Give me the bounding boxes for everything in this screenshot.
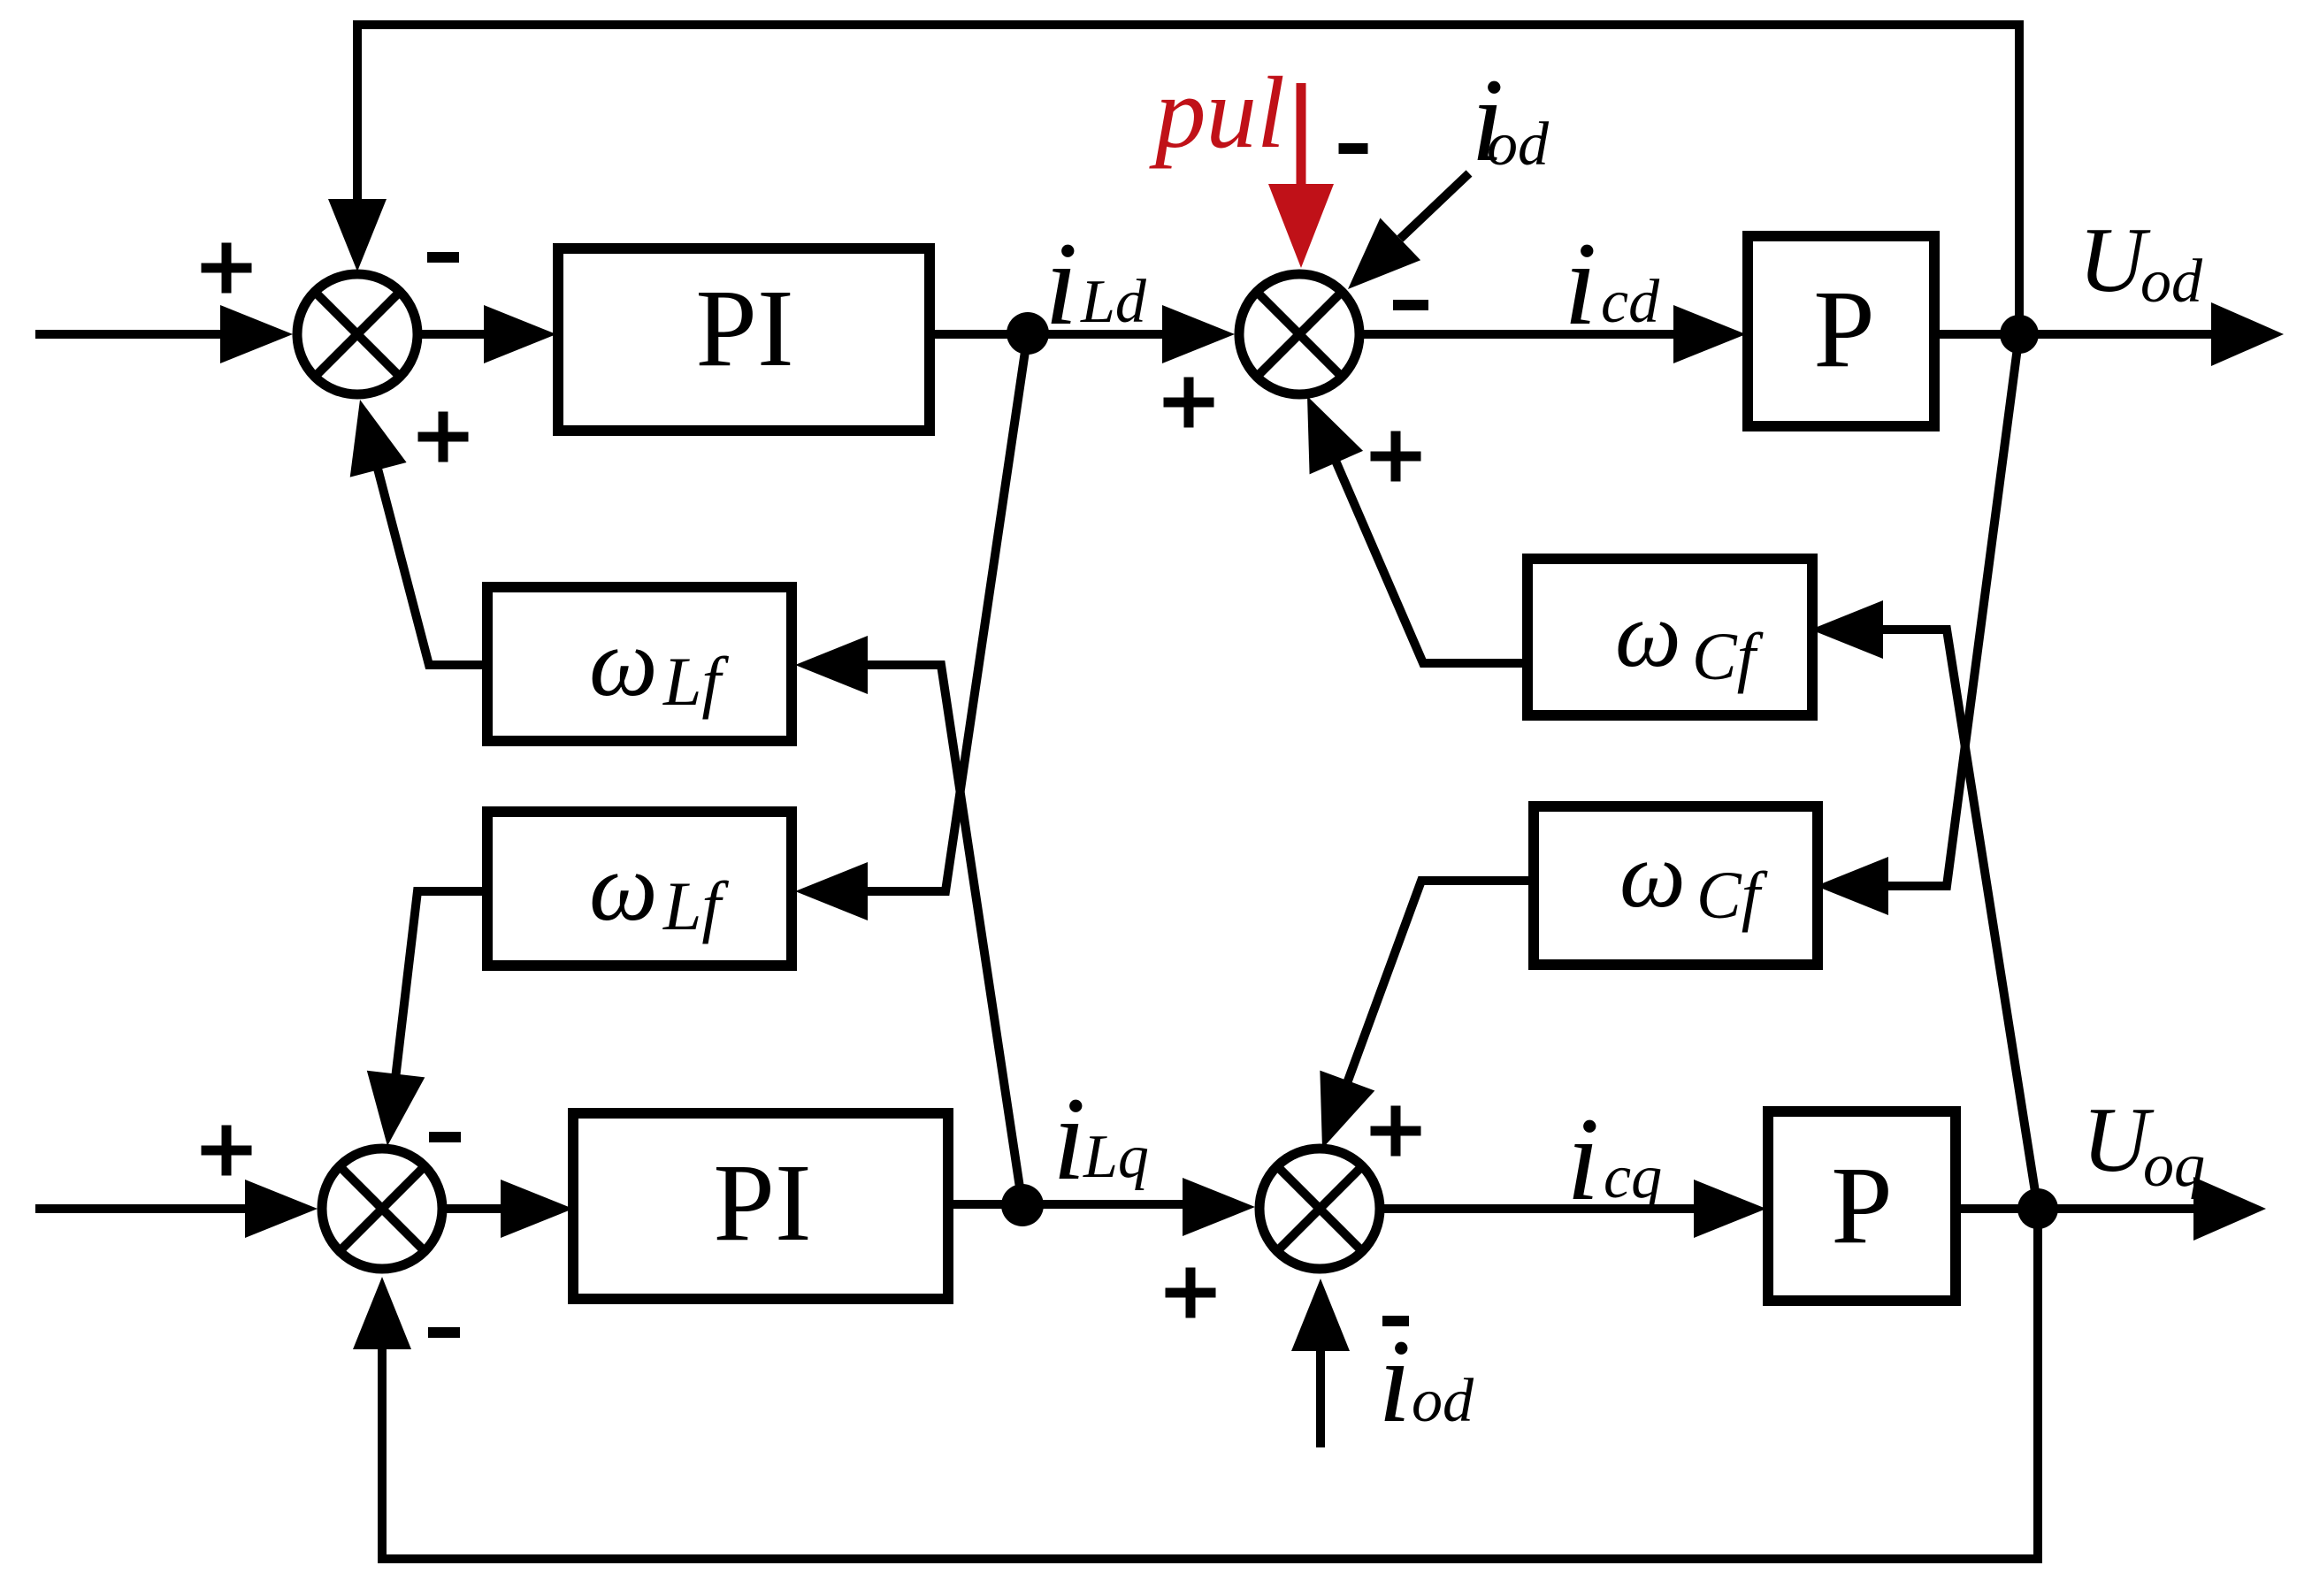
wire S4 to PI2 bbox=[442, 1204, 506, 1213]
arrowhead wLf2 into S4 bbox=[358, 1071, 425, 1149]
svg-text:cq: cq bbox=[1604, 1143, 1662, 1211]
svg-text:ω: ω bbox=[1619, 823, 1686, 927]
svg-text:oq: oq bbox=[2143, 1132, 2205, 1200]
svg-text:Cf: Cf bbox=[1696, 859, 1768, 933]
wire wLf2 to S4 top input bbox=[395, 891, 487, 1079]
block wCf1 bbox=[1527, 559, 1812, 715]
wire S3 to P2 bbox=[1384, 1204, 1699, 1213]
arrowhead icq into P2 bbox=[1694, 1180, 1766, 1238]
wire Uoq diagonal to top wCf1 bbox=[1883, 630, 2038, 1209]
summing junction S3 bbox=[1259, 1149, 1380, 1269]
svg-text:i: i bbox=[1566, 1094, 1600, 1226]
wire P2 to output with node Uoq bbox=[1956, 1204, 2197, 1213]
arrowhead iod into S3 bottom bbox=[1291, 1279, 1350, 1351]
wire wLf1 to S1 bottom input bbox=[378, 469, 487, 665]
svg-text:Lf: Lf bbox=[662, 643, 729, 720]
svg-text:od: od bbox=[1412, 1367, 1474, 1435]
wire S2 to P1 bbox=[1364, 330, 1679, 339]
block PI2 bbox=[573, 1113, 948, 1299]
svg-text:i: i bbox=[1564, 218, 1597, 350]
minus sign right of pul arrow bbox=[1339, 143, 1368, 154]
svg-text:P: P bbox=[1813, 269, 1875, 391]
node Uoq bbox=[2017, 1188, 2058, 1229]
arrowhead into wLf2 bbox=[795, 862, 868, 920]
summing junction S1 bbox=[297, 274, 417, 394]
wire input iLq* from left bbox=[35, 1204, 249, 1213]
node Uod bbox=[2000, 315, 2039, 354]
wire top feedback Uod to sum S1 bbox=[357, 25, 2019, 334]
arrowhead into wCf1 bbox=[1811, 600, 1883, 659]
wire wCf2 to S3 top input bbox=[1347, 881, 1534, 1083]
arrowhead iod into S2 bbox=[1328, 218, 1420, 309]
wire PI1 to sum S2 with node iLd bbox=[930, 330, 1166, 339]
minus sign S4 top input bbox=[429, 1132, 461, 1142]
wire iod input diagonal into S2 bbox=[1400, 173, 1469, 239]
minus sign S3 bottom input bbox=[1382, 1316, 1409, 1326]
plus sign S2 bottom input bbox=[1371, 431, 1421, 482]
wire input iLd* from left bbox=[35, 330, 225, 339]
svg-text:i: i bbox=[1053, 1073, 1086, 1205]
summing junction S4 bbox=[322, 1149, 442, 1269]
svg-text:PI: PI bbox=[695, 268, 793, 390]
minus sign S1 top input bbox=[427, 252, 459, 263]
svg-text:od: od bbox=[2140, 248, 2203, 316]
svg-text:P: P bbox=[1831, 1145, 1893, 1267]
svg-text:Lf: Lf bbox=[662, 867, 729, 944]
svg-text:ω: ω bbox=[589, 608, 658, 716]
block wLf1 bbox=[487, 587, 792, 741]
minus sign S2 right input bbox=[1393, 300, 1428, 310]
arrowhead wCf2 into S3 bbox=[1295, 1071, 1374, 1159]
plus sign S3 top input bbox=[1371, 1106, 1421, 1157]
svg-text:ω: ω bbox=[589, 833, 658, 941]
block P2 bbox=[1768, 1111, 1956, 1301]
arrowhead wLf1 into S1 bbox=[332, 393, 407, 477]
block wCf2 bbox=[1534, 806, 1818, 965]
plus sign S1 bottom input bbox=[418, 412, 469, 462]
arrowhead top feedback into S1 bbox=[328, 199, 387, 271]
svg-text:od: od bbox=[1487, 111, 1550, 179]
svg-text:i: i bbox=[1045, 218, 1078, 350]
arrowhead into PI2 bbox=[501, 1180, 573, 1238]
minus sign S4 bottom input bbox=[428, 1327, 460, 1338]
svg-text:Lq: Lq bbox=[1083, 1123, 1149, 1191]
plus sign S4 left input bbox=[202, 1126, 252, 1176]
summing junction S2 bbox=[1239, 274, 1359, 394]
arrowhead wCf1 into S2 bbox=[1281, 385, 1363, 475]
arrowhead output Uoq bbox=[2193, 1177, 2266, 1241]
arrowhead into PI1 bbox=[484, 305, 556, 363]
arrowhead into wCf2 bbox=[1816, 857, 1888, 915]
arrowhead into wLf1 bbox=[795, 636, 868, 694]
wire iod input bottom into S3 bbox=[1316, 1348, 1325, 1447]
svg-text:ω: ω bbox=[1615, 583, 1681, 686]
arrowhead icd into P1 bbox=[1673, 305, 1746, 363]
plus sign S1 left input bbox=[202, 243, 252, 294]
wire PI2 to sum S3 with node iLq bbox=[948, 1200, 1186, 1209]
wire Uod node diagonal to lower wCf2 bbox=[1885, 334, 2019, 886]
block wLf2 bbox=[487, 812, 792, 966]
arrowhead red pul into S2 bbox=[1268, 184, 1334, 268]
wire wCf1 to S2 bottom input bbox=[1336, 461, 1527, 663]
svg-text:Ld: Ld bbox=[1080, 268, 1147, 336]
plus sign S2 left input bbox=[1164, 378, 1214, 428]
arrowhead output Uod bbox=[2211, 302, 2284, 366]
plus sign S3 left input bbox=[1166, 1268, 1216, 1318]
svg-text:Cf: Cf bbox=[1692, 620, 1764, 694]
arrowhead input into S1 bbox=[220, 305, 293, 363]
wire red pul input bbox=[1297, 83, 1306, 191]
wire iLq node up to top wLf1 bbox=[866, 665, 1022, 1205]
block PI1 bbox=[558, 248, 930, 431]
svg-text:pul: pul bbox=[1149, 57, 1285, 169]
node iLd bbox=[1007, 312, 1049, 355]
node iLq bbox=[1001, 1184, 1044, 1226]
wire iLd node down to lower wLf2 bbox=[866, 333, 1028, 891]
svg-text:PI: PI bbox=[713, 1142, 811, 1264]
arrowhead input into S4 bbox=[245, 1180, 318, 1238]
arrowhead iLq into S3 bbox=[1183, 1178, 1255, 1236]
block P1 bbox=[1748, 236, 1934, 426]
svg-text:cd: cd bbox=[1601, 268, 1660, 336]
wire S1 to PI1 bbox=[417, 330, 488, 339]
svg-text:i: i bbox=[1378, 1316, 1412, 1447]
arrowhead bottom feedback into S4 bbox=[353, 1277, 411, 1349]
arrowhead iLd into S2 bbox=[1162, 305, 1235, 363]
wire bottom feedback Uoq to S4 bbox=[382, 1209, 2038, 1559]
wire P1 to output with node Uod bbox=[1934, 330, 2215, 339]
